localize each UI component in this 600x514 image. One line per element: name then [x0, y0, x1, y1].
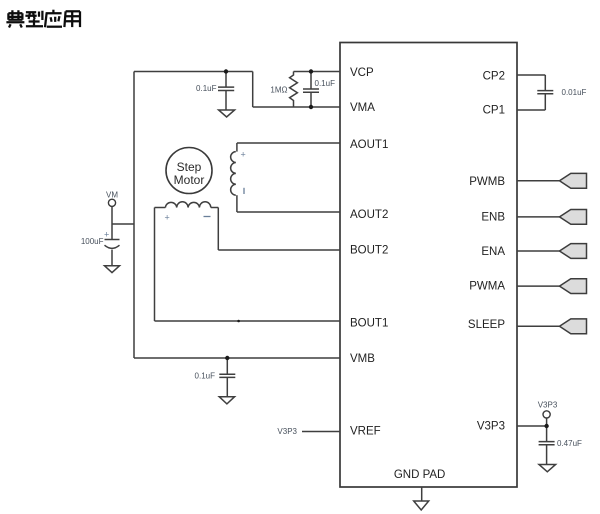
svg-text:0.1uF: 0.1uF [196, 84, 217, 93]
svg-text:1MΩ: 1MΩ [270, 86, 287, 95]
svg-text:+: + [104, 230, 109, 240]
svg-text:GND PAD: GND PAD [394, 469, 446, 481]
svg-text:0.47uF: 0.47uF [557, 439, 582, 448]
svg-text:0.01uF: 0.01uF [562, 88, 587, 97]
svg-text:PWMB: PWMB [469, 176, 505, 188]
svg-text:V3P3: V3P3 [477, 421, 505, 433]
svg-text:CP2: CP2 [483, 71, 505, 83]
svg-text:+: + [165, 213, 170, 223]
svg-text:ENA: ENA [481, 246, 505, 258]
svg-text:VMA: VMA [350, 102, 375, 114]
svg-text:0.1uF: 0.1uF [195, 372, 216, 381]
svg-text:VREF: VREF [350, 426, 381, 438]
svg-text:VCP: VCP [350, 67, 374, 79]
svg-text:V3P3: V3P3 [538, 401, 558, 410]
svg-text:BOUT2: BOUT2 [350, 245, 388, 257]
svg-text:SLEEP: SLEEP [468, 319, 505, 331]
svg-text:100uF: 100uF [81, 237, 104, 246]
svg-text:Step: Step [177, 160, 202, 174]
svg-text:ENB: ENB [481, 212, 505, 224]
svg-text:AOUT2: AOUT2 [350, 209, 388, 221]
svg-text:+: + [241, 150, 246, 160]
svg-text:PWMA: PWMA [469, 281, 505, 293]
svg-text:VM: VM [106, 191, 118, 200]
svg-text:AOUT1: AOUT1 [350, 139, 388, 151]
svg-text:0.1uF: 0.1uF [315, 79, 336, 88]
svg-text:BOUT1: BOUT1 [350, 318, 388, 330]
svg-text:V3P3: V3P3 [277, 427, 297, 436]
svg-text:Motor: Motor [174, 173, 205, 187]
svg-text:CP1: CP1 [483, 105, 505, 117]
svg-text:VMB: VMB [350, 353, 375, 365]
